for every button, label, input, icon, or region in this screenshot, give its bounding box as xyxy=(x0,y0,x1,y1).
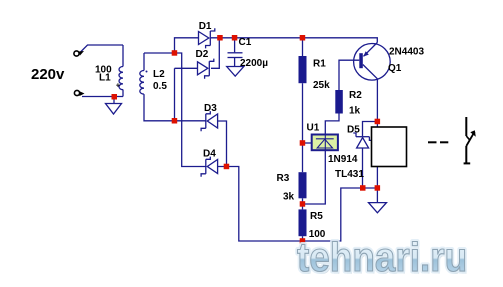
svg-text:U1: U1 xyxy=(307,123,320,134)
svg-text:2200µ: 2200µ xyxy=(240,58,268,69)
svg-text:R5: R5 xyxy=(310,211,323,222)
svg-text:C1: C1 xyxy=(239,37,252,48)
svg-text:TL431: TL431 xyxy=(335,169,364,180)
svg-text:1N914: 1N914 xyxy=(328,154,358,165)
svg-text:D3: D3 xyxy=(204,103,217,114)
svg-text:L2: L2 xyxy=(153,69,165,80)
svg-text:D5: D5 xyxy=(347,125,360,136)
svg-text:D4: D4 xyxy=(203,149,216,160)
svg-text:2N4403: 2N4403 xyxy=(389,47,424,58)
svg-text:220v: 220v xyxy=(31,66,65,83)
svg-text:D2: D2 xyxy=(196,49,209,60)
svg-text:25k: 25k xyxy=(313,80,330,91)
svg-text:D1: D1 xyxy=(199,21,212,32)
svg-text:R3: R3 xyxy=(277,173,290,184)
svg-text:R1: R1 xyxy=(313,59,326,70)
svg-text:Q1: Q1 xyxy=(388,63,402,74)
svg-text:1k: 1k xyxy=(349,106,361,117)
svg-text:tehnari.ru: tehnari.ru xyxy=(297,235,467,280)
svg-text:0.5: 0.5 xyxy=(153,81,167,92)
svg-text:+: + xyxy=(116,80,121,89)
svg-text:R2: R2 xyxy=(349,90,362,101)
svg-text:3k: 3k xyxy=(283,192,295,203)
svg-text:L1: L1 xyxy=(99,73,111,84)
